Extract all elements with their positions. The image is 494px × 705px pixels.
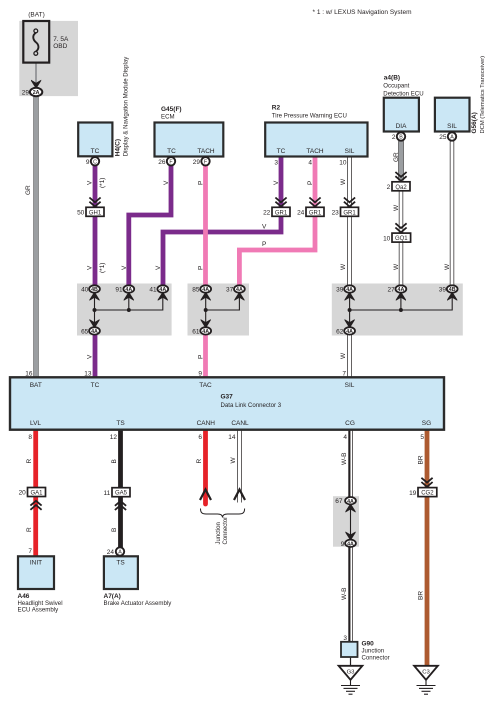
svg-text:6: 6 [198,434,202,441]
svg-text:4A: 4A [159,287,166,293]
wire label V (91 wire) [121,265,128,270]
junction block 1 internals [89,289,167,331]
gray background panel around fuse [19,21,78,96]
svg-text:TAC: TAC [199,382,212,389]
gray junction block panel 3 (SIL) [332,284,463,336]
wire label BR (SG upper) [418,455,425,464]
svg-text:GR1: GR1 [275,210,288,216]
svg-text:R2: R2 [272,105,281,112]
svg-text:CG2: CG2 [421,491,434,497]
wire label V (G45 TC) [163,180,170,185]
fuse 7.5A OBD [23,12,69,63]
pin 25 A of G56(A) [439,132,456,141]
svg-text:R: R [26,527,33,532]
svg-text:24: 24 [297,210,305,217]
wire CANL W white [237,430,241,503]
wire SIL out of junction to G37 [347,331,351,377]
svg-text:23: 23 [332,210,340,217]
svg-text:Junction: Junction [362,648,385,655]
svg-text:CANL: CANL [231,420,249,427]
wire label (*1) lower [99,263,106,273]
svg-text:R: R [196,459,203,464]
wire a4(B) DIA GR gray [398,141,404,181]
svg-text:29: 29 [22,90,30,97]
svg-text:7: 7 [342,371,346,378]
wire label W (G56 wire) [444,263,451,270]
svg-text:W: W [444,263,451,270]
wire label V (TC to G37) [87,354,94,359]
svg-text:A: A [118,550,122,556]
svg-text:61: 61 [192,328,200,335]
svg-text:SIL: SIL [345,148,355,155]
wire label W (SIL to G37) [340,352,347,359]
svg-text:22: 22 [263,210,271,217]
svg-text:50: 50 [77,210,85,217]
svg-text:W-B: W-B [341,587,348,600]
svg-text:V: V [262,224,267,231]
label Junction Connector (rotated) [216,517,229,545]
oval 40 4B [81,285,100,293]
svg-text:10: 10 [383,235,391,242]
arrow above 2A oval [31,80,41,88]
svg-text:4A: 4A [125,287,132,293]
oval 9 4A [341,540,356,548]
wire label V (H4C lower) [87,265,94,270]
box G56(A) DCM (Telematics Transceiver) [435,56,486,134]
connector 24 GR1 with arrow [297,198,324,217]
svg-text:TS: TS [116,559,125,566]
wire R2 SIL W white [347,158,351,290]
junction block 2 internals [201,289,245,331]
wire TC out of junction to G37 [93,331,98,377]
wire label W (R2 SIL) [340,178,347,185]
wire G90 to ground [350,657,352,666]
wire label R (LVL lower) [26,527,33,532]
junction block 4 internals [345,501,355,544]
svg-text:Display & Navigation Module Di: Display & Navigation Module Display [123,56,130,157]
svg-text:Connector: Connector [362,655,390,662]
svg-text:DIA: DIA [396,123,408,130]
box R2 Tire Pressure Warning ECU [265,105,367,167]
svg-text:V: V [87,354,94,359]
svg-text:W: W [340,352,347,359]
svg-text:R: R [26,459,33,464]
svg-text:A: A [450,135,454,141]
box a4(B) Occupant Detection ECU [383,75,423,132]
wire G45 TACH P pink [203,166,208,290]
svg-text:V: V [121,265,128,270]
oval 41 4A [149,285,168,293]
svg-text:W: W [340,263,347,270]
svg-text:GR: GR [393,152,400,162]
svg-text:4A: 4A [347,499,354,505]
wire label B (TS lower) [111,528,118,532]
svg-text:GR1: GR1 [343,210,356,216]
oval 62 4A [336,327,355,335]
wire label P (G45 TACH) [198,181,205,185]
gray junction block panel 1 (TC) [77,284,172,336]
svg-text:P: P [307,181,314,185]
svg-text:* 1 : w/ LEXUS Navigation Syst: * 1 : w/ LEXUS Navigation System [313,9,412,16]
svg-text:4: 4 [343,434,347,441]
connector 20 GA1 with arrow [19,488,46,510]
svg-text:GR: GR [25,185,32,195]
oval 39 4A [336,285,355,293]
svg-text:SG: SG [422,420,431,427]
oval 27 4A [387,285,406,293]
wire label W-B (CG upper) [341,452,348,465]
svg-text:BR: BR [418,455,425,464]
svg-text:B: B [111,528,118,532]
connector 10 GQ1 with arrow [383,223,411,242]
svg-text:4A: 4A [347,542,354,548]
svg-text:9: 9 [86,159,90,166]
svg-text:P: P [198,181,205,185]
wire label V (H4C upper) [87,180,94,185]
svg-text:4B: 4B [91,287,98,293]
wire label W (GQ1-junction) [393,263,400,270]
wire GQ1 to junction W white [399,242,403,290]
svg-text:TC: TC [91,148,100,155]
svg-text:16: 16 [25,371,33,378]
svg-text:10: 10 [339,160,347,167]
wire H4(C) TC V purple [93,166,98,290]
svg-text:V: V [273,180,280,185]
svg-text:14: 14 [228,434,236,441]
wire label R (LVL upper) [26,459,33,464]
svg-text:G45(F): G45(F) [161,106,182,113]
box G45(F) ECM [155,106,224,156]
svg-text:25: 25 [439,134,447,141]
pin 24 A of A7(A) [107,547,124,556]
svg-text:A46: A46 [18,593,30,600]
svg-text:OBD: OBD [53,43,67,50]
svg-text:62: 62 [336,328,344,335]
svg-text:H4(C): H4(C) [115,139,122,156]
oval 2A [22,88,43,97]
svg-text:DCM (Telematics Transceiver): DCM (Telematics Transceiver) [480,56,486,134]
svg-text:4A: 4A [91,329,98,335]
wire label P (TAC to G37) [198,355,205,359]
svg-text:ECM: ECM [161,114,175,121]
svg-text:SIL: SIL [447,123,457,130]
svg-text:5: 5 [420,434,424,441]
wire CG W-B lower [347,543,352,642]
svg-text:(*1): (*1) [99,178,106,188]
ground C3 [414,666,438,694]
svg-text:4B: 4B [449,287,456,293]
svg-text:7. 5A: 7. 5A [53,36,69,43]
svg-text:GA5: GA5 [115,491,128,497]
svg-text:Qa2: Qa2 [395,185,407,191]
svg-text:V: V [155,265,162,270]
svg-text:V: V [87,180,94,185]
chevron terminal CANH [200,490,211,501]
oval 67 4A [335,497,356,505]
svg-text:C3: C3 [422,670,430,676]
svg-text:3: 3 [274,160,278,167]
wire: fuse lead [35,53,37,87]
svg-text:V: V [163,180,170,185]
svg-text:2: 2 [387,184,391,191]
junction block 3 internals [345,289,458,331]
svg-text:TACH: TACH [306,148,324,155]
svg-text:85: 85 [192,287,200,294]
wire label V (41 wire) [155,265,162,270]
svg-text:67: 67 [335,498,343,505]
svg-text:TACH: TACH [197,148,215,155]
svg-text:G37: G37 [221,394,234,401]
svg-text:P: P [198,355,205,359]
pin 9 C of H4(C) [86,157,99,166]
pin 26 F of G45 [158,157,175,166]
svg-text:TC: TC [277,148,286,155]
svg-text:GQ1: GQ1 [395,236,408,242]
chevron terminal CANL [234,490,245,501]
wire TS B black [118,430,123,548]
svg-text:7: 7 [28,548,32,555]
wire SG BR brown [425,430,430,665]
oval 85 4A [192,285,211,293]
oval 39 4B [439,285,458,293]
svg-text:SIL: SIL [345,382,355,389]
svg-text:91: 91 [115,287,123,294]
svg-text:3: 3 [343,635,347,642]
pin 29 F of G45 [193,157,210,166]
connector 11 GA5 with arrow [104,488,130,510]
svg-text:W: W [340,178,347,185]
wire label P (elbow horizontal) [262,241,266,248]
svg-text:TC: TC [167,148,176,155]
wire LVL R red [33,430,38,556]
note: w/ LEXUS Navigation System [313,9,412,16]
wire G56 SIL W white [450,141,454,290]
svg-text:39: 39 [336,287,344,294]
box G90 Junction Connector [341,635,390,662]
svg-text:Connector: Connector [223,517,229,545]
pin numbers below G37 [28,434,424,441]
svg-text:ECU Assembly: ECU Assembly [18,607,60,614]
svg-text:P: P [262,241,266,248]
svg-text:Occupant: Occupant [383,83,409,90]
svg-text:4A: 4A [398,287,405,293]
svg-text:13: 13 [84,371,92,378]
wire label (*1) upper [99,178,106,188]
wire label V (elbow horizontal) [262,224,267,231]
svg-text:G90: G90 [362,641,375,648]
svg-text:2: 2 [392,134,396,141]
svg-text:2A: 2A [33,90,40,96]
svg-text:Tire Pressure Warning ECU: Tire Pressure Warning ECU [272,113,347,120]
wire label P (85 wire) [198,266,205,270]
svg-text:41: 41 [149,287,157,294]
svg-text:C: C [93,160,97,166]
svg-text:Junction: Junction [216,522,222,544]
box H4(C) Display and Navigation Module Display [78,56,129,157]
pin numbers above G37 [25,371,346,378]
svg-text:BR: BR [418,591,425,600]
svg-text:26: 26 [158,159,166,166]
box A7(A) Brake Actuator Assembly (TS) [104,556,173,607]
svg-text:W: W [393,204,400,211]
svg-text:4: 4 [308,160,312,167]
wire label W (R2 SIL lower) [340,263,347,270]
oval 91 4A [115,285,134,293]
svg-text:4A: 4A [202,329,209,335]
svg-text:CG: CG [345,420,355,427]
connector 23 GR1 with arrow [332,198,359,217]
svg-text:W-B: W-B [341,452,348,465]
wire BAT GR (gray) [33,92,38,377]
connector 19 CG2 with arrow [409,478,437,497]
svg-text:Detection ECU: Detection ECU [383,91,423,98]
svg-text:a4(B): a4(B) [384,75,400,82]
svg-text:4A: 4A [346,287,353,293]
svg-text:V: V [87,265,94,270]
oval 61 4A [192,327,211,335]
svg-text:INIT: INIT [30,559,42,566]
svg-text:G56(A): G56(A) [471,112,478,133]
wire R2 TC V purple elbow [163,158,281,290]
svg-text:GR1: GR1 [309,210,322,216]
svg-text:W: W [230,457,237,464]
svg-text:(*1): (*1) [99,263,106,273]
svg-text:4A: 4A [202,287,209,293]
wire label P (R2 TACH) [307,181,314,185]
wire label V (R2 TC) [273,180,280,185]
wire label R (CANH) [196,459,203,464]
svg-text:40: 40 [81,287,89,294]
wire TAC out of junction to G37 [203,331,208,377]
connector 2 Qa2 with arrow [387,172,410,191]
svg-text:37: 37 [226,287,234,294]
svg-text:4A: 4A [346,329,353,335]
svg-text:12: 12 [110,434,118,441]
svg-text:Brake Actuator Assembly: Brake Actuator Assembly [104,600,173,607]
svg-text:29: 29 [193,159,201,166]
brace junction connector [201,509,245,518]
svg-text:GH1: GH1 [89,210,102,216]
wire CANH R red [203,430,208,504]
svg-text:8: 8 [28,434,32,441]
wire label W (Qa2-GQ1) [393,204,400,211]
wire label W-B (CG lower) [341,587,348,600]
svg-text:39: 39 [439,287,447,294]
svg-text:A7(A): A7(A) [104,593,121,600]
wire G45 TC V purple elbow [129,166,171,290]
svg-text:B: B [111,459,118,463]
connector 22 GR1 with arrow [263,198,290,217]
svg-text:TS: TS [116,420,125,427]
svg-text:TC: TC [91,382,100,389]
svg-text:(BAT): (BAT) [28,12,45,19]
svg-text:65: 65 [81,328,89,335]
svg-text:LVL: LVL [30,420,41,427]
svg-text:24: 24 [107,549,115,556]
wire Qa2 to GQ1 W white [399,191,403,234]
wire R2 TACH P pink elbow [239,158,315,290]
wire label GR (a4 wire) [393,152,400,162]
gray junction block panel 4 (CG) [333,496,359,547]
pin 2 B of a4(B) [392,132,405,141]
box G37 Data Link Connector 3 [10,377,444,429]
svg-text:11: 11 [104,490,111,497]
svg-text:P: P [198,266,205,270]
connector GH1 with arrow [77,198,104,217]
wire label W (CANL) [230,457,237,464]
gray junction block panel 2 (TAC) [188,284,250,336]
svg-text:GA1: GA1 [30,491,43,497]
svg-text:27: 27 [387,287,395,294]
svg-text:4A: 4A [236,287,243,293]
svg-text:19: 19 [409,490,417,497]
svg-text:20: 20 [19,490,27,497]
svg-text:CANH: CANH [197,420,216,427]
svg-text:9: 9 [198,371,202,378]
ground G3 [339,666,363,694]
svg-text:Data Link Connector 3: Data Link Connector 3 [221,402,282,409]
oval 65 4A [81,327,100,335]
box A46 Headlight Swivel ECU Assembly (INIT) [18,548,63,613]
svg-text:W: W [393,263,400,270]
svg-text:BAT: BAT [30,382,42,389]
svg-text:9: 9 [341,541,345,548]
svg-text:G3: G3 [347,670,356,676]
wire label GR (BAT wire) [25,185,32,195]
wire label BR (SG lower) [418,591,425,600]
wire label B (TS upper) [111,459,118,463]
wire CG W-B [347,430,352,501]
oval 37 4A [226,285,245,293]
svg-text:B: B [399,135,403,141]
